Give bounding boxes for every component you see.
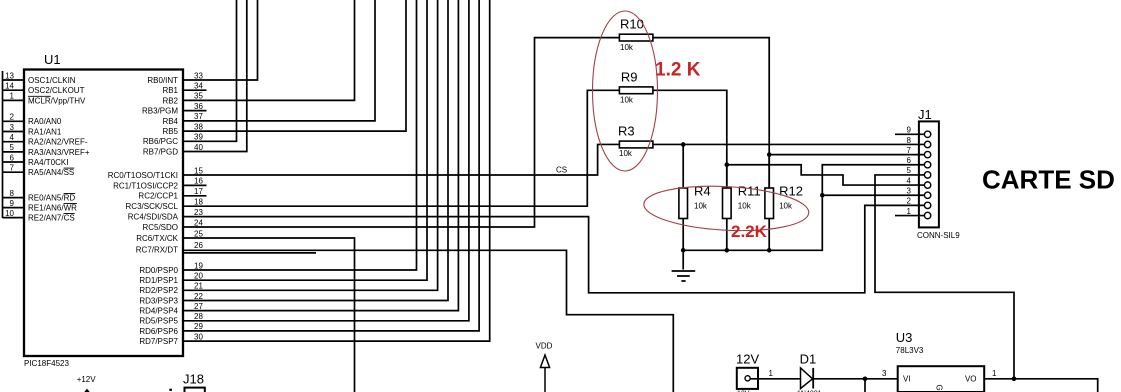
junction R11 bottom on ground rail	[725, 248, 730, 253]
svg-text:RB3/PGM: RB3/PGM	[142, 107, 178, 116]
wire R11 node to J1 pin 4 with jogs	[727, 165, 925, 185]
svg-text:15: 15	[194, 166, 203, 175]
wire SDI net: U1 pin 23 RC4 down and to J1 pin 2	[184, 205, 924, 292]
IC U1 PIC18F4523 microcontroller body	[24, 70, 183, 357]
svg-text:33: 33	[194, 71, 203, 80]
svg-text:RA4/T0CKI: RA4/T0CKI	[28, 158, 68, 167]
svg-text:24: 24	[194, 218, 203, 227]
resistor R10 body	[619, 34, 653, 41]
svg-text:RC5/SDO: RC5/SDO	[142, 223, 178, 232]
junction 12V rail down	[863, 377, 868, 382]
connector 12V input	[736, 352, 801, 389]
wire RB7/PGD pin 40 up to top	[184, 0, 247, 152]
svg-text:1.2 K: 1.2 K	[655, 60, 701, 81]
svg-text:5: 5	[10, 143, 15, 152]
connector J18	[183, 372, 205, 392]
red ellipse around R4 R11 R12	[643, 182, 810, 234]
svg-text:R10: R10	[620, 17, 644, 32]
svg-text:22: 22	[194, 292, 203, 301]
svg-text:OSC2/CLKOUT: OSC2/CLKOUT	[28, 86, 85, 95]
svg-text:VDD: VDD	[536, 342, 553, 351]
svg-text:17: 17	[194, 187, 203, 196]
J1 pin 5 wire from 3.3V rail below	[875, 175, 1014, 379]
svg-text:RA5/AN4/SS: RA5/AN4/SS	[28, 168, 74, 177]
wire RB6/PGC pin 39 up to top	[184, 0, 237, 141]
svg-text:9: 9	[907, 126, 912, 135]
svg-text:37: 37	[194, 112, 203, 121]
junction R4 bottom on ground rail	[681, 248, 686, 253]
svg-text:RE0/AN5/RD: RE0/AN5/RD	[28, 194, 75, 203]
junction R12 bottom on ground rail	[767, 248, 772, 253]
svg-text:CONN-SIL9: CONN-SIL9	[917, 231, 960, 240]
junction R4 top on CS divider node	[681, 142, 686, 147]
svg-text:12V: 12V	[736, 352, 759, 367]
svg-text:R3: R3	[618, 124, 635, 139]
svg-text:10k: 10k	[619, 149, 633, 158]
svg-text:3: 3	[882, 369, 887, 378]
wire RC1 pin 16 stub	[184, 184, 207, 186]
wire SCK net: U1 pin 18 RC3 to R9 left lead	[184, 90, 619, 206]
junction R12 top node	[767, 152, 772, 157]
wire R12 node to J1 pin 7	[769, 154, 924, 156]
svg-text:25: 25	[194, 229, 203, 238]
+12V arrow head	[84, 389, 90, 392]
red ellipse around R10 R9 R3	[593, 11, 658, 171]
U1 left pin labels	[28, 76, 90, 223]
diode D1	[800, 352, 898, 389]
wire RD5/PSP5 pin 28 up to top	[184, 0, 469, 321]
svg-text:RC2/CCP1: RC2/CCP1	[138, 192, 178, 201]
svg-text:RA2/AN2/VREF-: RA2/AN2/VREF-	[28, 138, 88, 147]
svg-text:23: 23	[194, 208, 203, 217]
svg-text:1: 1	[907, 207, 912, 216]
svg-text:35: 35	[194, 92, 203, 101]
svg-text:10: 10	[5, 209, 14, 218]
resistor R4 leads	[682, 144, 684, 250]
svg-text:MCLR/Vpp/THV: MCLR/Vpp/THV	[28, 96, 86, 105]
svg-text:28: 28	[194, 312, 203, 321]
svg-text:PIC18F4523: PIC18F4523	[24, 359, 69, 368]
svg-text:RB5: RB5	[162, 127, 178, 136]
wire R10 right lead down to R12 top	[653, 38, 769, 188]
svg-text:1: 1	[769, 369, 774, 378]
power VDD symbol	[536, 342, 553, 392]
svg-text:RA0/AN0: RA0/AN0	[28, 117, 62, 126]
svg-text:J1: J1	[918, 107, 932, 122]
svg-text:78L3V3: 78L3V3	[896, 346, 924, 355]
svg-text:27: 27	[194, 302, 203, 311]
wire RD2/PSP2 pin 21 up to top	[184, 0, 438, 290]
svg-text:6: 6	[10, 153, 15, 162]
svg-text:RD6/PSP6: RD6/PSP6	[139, 327, 178, 336]
svg-text:CARTE SD: CARTE SD	[982, 165, 1115, 195]
svg-text:RD1/PSP1: RD1/PSP1	[139, 276, 178, 285]
svg-text:1: 1	[992, 369, 997, 378]
wire R9 right lead down to R11 top	[653, 90, 727, 188]
svg-text:10k: 10k	[620, 96, 634, 105]
wire RD3/PSP3 pin 22 up to top	[184, 0, 448, 301]
svg-text:U1: U1	[44, 52, 61, 67]
svg-text:VO: VO	[965, 375, 977, 384]
svg-text:RC0/T1OSO/T1CKI: RC0/T1OSO/T1CKI	[108, 171, 178, 180]
svg-text:8: 8	[10, 189, 15, 198]
svg-text:RB7/PGD: RB7/PGD	[143, 147, 178, 156]
svg-text:RD0/PSP0: RD0/PSP0	[139, 266, 178, 275]
svg-text:RB6/PGC: RB6/PGC	[143, 137, 178, 146]
svg-text:19: 19	[194, 261, 203, 270]
wire RB2 pin 35 up to top	[184, 0, 355, 100]
J1 pin circles	[924, 131, 930, 219]
svg-text:4: 4	[10, 133, 15, 142]
wire RD0/PSP0 pin 19 up to top	[184, 0, 417, 270]
voltage regulator U3 78L3V3	[896, 330, 984, 392]
svg-text:D1: D1	[800, 352, 817, 367]
svg-text:RC4/SDI/SDA: RC4/SDI/SDA	[128, 213, 179, 222]
svg-text:RB0/INT: RB0/INT	[147, 76, 178, 85]
wire ground branch to J1 pin 3	[822, 194, 924, 196]
svg-text:RB1: RB1	[162, 86, 178, 95]
resistor R4 body	[679, 188, 688, 219]
wire RC6/TX pin 25 down to bottom edge	[184, 238, 355, 392]
svg-text:29: 29	[194, 322, 203, 331]
svg-text:RC3/SCK/SCL: RC3/SCK/SCL	[126, 202, 179, 211]
resistor R11 leads	[726, 165, 728, 251]
U1 right pin numbers	[194, 71, 203, 341]
ground symbol	[672, 253, 696, 282]
svg-text:OSC1/CLKIN: OSC1/CLKIN	[28, 76, 76, 85]
svg-text:10k: 10k	[779, 202, 793, 211]
junction R11 top node	[725, 162, 730, 167]
svg-text:21: 21	[194, 282, 203, 291]
svg-text:7: 7	[907, 146, 912, 155]
svg-text:J18: J18	[183, 372, 204, 387]
wire RD4/PSP4 pin 27 up to top	[184, 0, 458, 311]
J1 pin numbers 9..1	[907, 126, 912, 216]
J1 pin 9 stub	[895, 133, 924, 135]
U1 left pin wires	[3, 80, 25, 218]
svg-text:CS: CS	[556, 166, 567, 175]
wire short unterminated stub below RC7 wire	[184, 252, 316, 254]
svg-text:RD4/PSP4: RD4/PSP4	[139, 307, 178, 316]
svg-text:RC1/T1OSI/CCP2: RC1/T1OSI/CCP2	[113, 181, 178, 190]
svg-text:RC7/RX/DT: RC7/RX/DT	[136, 245, 178, 254]
svg-text:RE1/AN6/WR: RE1/AN6/WR	[28, 204, 77, 213]
svg-text:10k: 10k	[738, 202, 752, 211]
wire U3 VO output rail	[984, 379, 1097, 392]
wire RC7/RX pin 26 down right to bottom edge	[184, 250, 673, 392]
svg-text:5: 5	[907, 166, 912, 175]
svg-text:R4: R4	[694, 183, 711, 198]
U1 right pin labels	[108, 76, 179, 346]
wire RD6/PSP6 pin 29 up to top	[184, 0, 479, 331]
wire RB1 pin 34 stub	[184, 89, 207, 91]
svg-text:16: 16	[194, 177, 203, 186]
resistor R9 body	[619, 87, 653, 94]
wire RB4 pin 37 up to top	[184, 0, 375, 121]
wire R3 node to J1 pin 8	[653, 143, 924, 145]
svg-text:RA3/AN3/VREF+: RA3/AN3/VREF+	[28, 148, 90, 157]
svg-text:2: 2	[10, 113, 15, 122]
svg-text:RB2: RB2	[162, 96, 178, 105]
wire RC2 pin 17 stub	[184, 195, 207, 197]
svg-text:RE2/AN7/CS: RE2/AN7/CS	[28, 214, 75, 223]
svg-text:10k: 10k	[620, 43, 634, 52]
wire RD1/PSP1 pin 20 up to top	[184, 0, 427, 280]
svg-text:VI: VI	[903, 375, 911, 384]
svg-text:3: 3	[10, 123, 15, 132]
svg-text:38: 38	[194, 122, 203, 131]
svg-text:1: 1	[10, 92, 15, 101]
resistor R12 body	[765, 188, 774, 219]
small mark left of J18	[169, 389, 172, 391]
svg-text:39: 39	[194, 133, 203, 142]
svg-text:RD5/PSP5: RD5/PSP5	[139, 317, 178, 326]
svg-text:R9: R9	[621, 69, 638, 84]
connector J1 body	[919, 121, 939, 227]
svg-text:GND: GND	[935, 385, 944, 392]
U1 left pin numbers	[5, 71, 14, 218]
resistor R11 body	[723, 188, 732, 219]
junction ground branch J1 pin 3	[820, 193, 825, 198]
svg-text:26: 26	[194, 241, 203, 250]
svg-text:14: 14	[5, 82, 14, 91]
svg-text:40: 40	[194, 143, 203, 152]
wire RB5 pin 38 up to top	[184, 0, 406, 131]
svg-text:RD7/PSP7: RD7/PSP7	[139, 337, 178, 346]
svg-text:8: 8	[907, 136, 912, 145]
wire RB0/INT pin 33 up to top	[184, 0, 258, 80]
wire RD7/PSP7 pin 30 up to top	[184, 0, 490, 341]
resistor R12 leads	[768, 155, 770, 251]
svg-text:2: 2	[907, 197, 912, 206]
wire CS net: U1 pin 15 RC0 to R3 left lead	[184, 144, 619, 175]
svg-text:9: 9	[10, 199, 15, 208]
svg-text:R12: R12	[779, 183, 803, 198]
svg-text:3: 3	[907, 187, 912, 196]
svg-text:34: 34	[194, 82, 203, 91]
svg-text:U3: U3	[896, 330, 913, 345]
svg-text:30: 30	[194, 332, 203, 341]
junction 3.3V rail	[1012, 377, 1017, 382]
wire left bus vertical at image left edge	[2, 71, 4, 218]
svg-text:RD3/PSP3: RD3/PSP3	[139, 296, 178, 305]
svg-text:10k: 10k	[694, 202, 708, 211]
resistor R3 body	[619, 141, 653, 148]
svg-text:RA1/AN1: RA1/AN1	[28, 127, 62, 136]
svg-text:18: 18	[194, 198, 203, 207]
svg-text:4: 4	[907, 176, 912, 185]
J1 pin 1 stub	[895, 215, 924, 217]
svg-text:7: 7	[10, 164, 15, 173]
svg-text:+12V: +12V	[77, 375, 97, 384]
wire SDO net: U1 pin 24 RC5 to R10 left lead	[184, 38, 619, 227]
wire ground rail to J1 pin 6	[683, 165, 924, 251]
svg-text:R11: R11	[738, 183, 761, 198]
svg-text:RB4: RB4	[162, 117, 178, 126]
svg-text:2.2K: 2.2K	[731, 222, 768, 241]
wire 12V rail to bottom	[864, 379, 866, 392]
svg-text:13: 13	[5, 71, 14, 80]
svg-text:36: 36	[194, 102, 203, 111]
svg-text:RD2/PSP2: RD2/PSP2	[139, 286, 178, 295]
svg-text:20: 20	[194, 272, 203, 281]
wire RB3/PGM pin 36 stub	[184, 110, 207, 112]
svg-text:6: 6	[907, 156, 912, 165]
svg-text:RC6/TX/CK: RC6/TX/CK	[136, 234, 178, 243]
